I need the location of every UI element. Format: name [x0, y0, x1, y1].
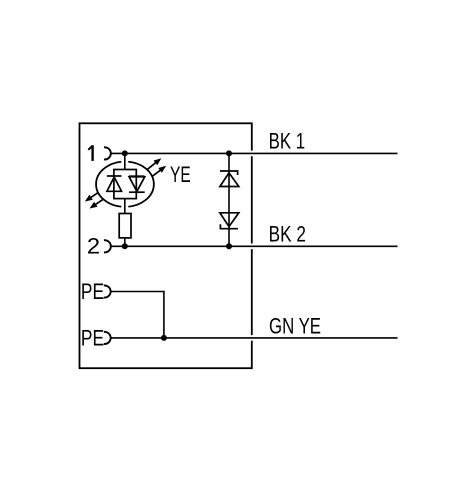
LED light arrow up-right 2 [152, 166, 166, 177]
LED light arrow down-left 1 [85, 192, 99, 201]
label GN YE [269, 313, 321, 338]
pin PE label upper [81, 279, 104, 304]
LED light arrow up-right 1 [147, 158, 161, 170]
wire GN YE (PE to cable) [111, 335, 397, 341]
svg-text:2: 2 [87, 233, 100, 258]
wire PE jumper [111, 292, 164, 338]
wire pin1 to LED [124, 153, 126, 169]
svg-text:GN YE: GN YE [269, 313, 321, 338]
LED chip diode right (anode up) [129, 176, 145, 192]
svg-text:BK 2: BK 2 [269, 221, 306, 246]
junction node BK1/suppressor [226, 150, 232, 156]
pin 2 label [87, 233, 100, 258]
svg-text:PE: PE [81, 326, 104, 351]
pin PE contact lower [104, 332, 111, 344]
label YE [170, 162, 191, 187]
svg-text:PE: PE [81, 279, 104, 304]
wire BK 1 (pin 1 to cable) [111, 151, 397, 157]
zener diode V1 (cathode up) [220, 171, 239, 187]
wire BK 2 (pin 2 to cable) [111, 244, 397, 250]
wire suppressor branch [228, 153, 230, 246]
junction node pin1/LED [122, 150, 128, 156]
pin 2 contact [104, 240, 111, 252]
junction node pin2/resistor [122, 243, 128, 249]
wire resistor to pin2 [124, 238, 126, 246]
pin 1 contact [104, 147, 111, 159]
resistor R1 [119, 214, 131, 238]
label BK 2 [269, 221, 306, 246]
LED chip diode left (anode down) [107, 176, 122, 191]
LED indicator U1 (yellow, bipolar) [96, 156, 154, 211]
label BK 1 [269, 128, 306, 153]
connector housing outline [80, 123, 252, 368]
wire LED to resistor [124, 199, 126, 214]
junction node BK2/suppressor [226, 243, 232, 249]
junction node PE [161, 335, 167, 341]
pin PE label lower [81, 326, 104, 351]
svg-text:YE: YE [170, 162, 191, 187]
LED light arrow down-left 2 [90, 199, 104, 209]
svg-text:BK 1: BK 1 [269, 128, 306, 153]
pin PE contact upper [104, 285, 111, 297]
zener diode V2 (cathode down) [220, 213, 239, 229]
pin 1 label [88, 145, 92, 161]
